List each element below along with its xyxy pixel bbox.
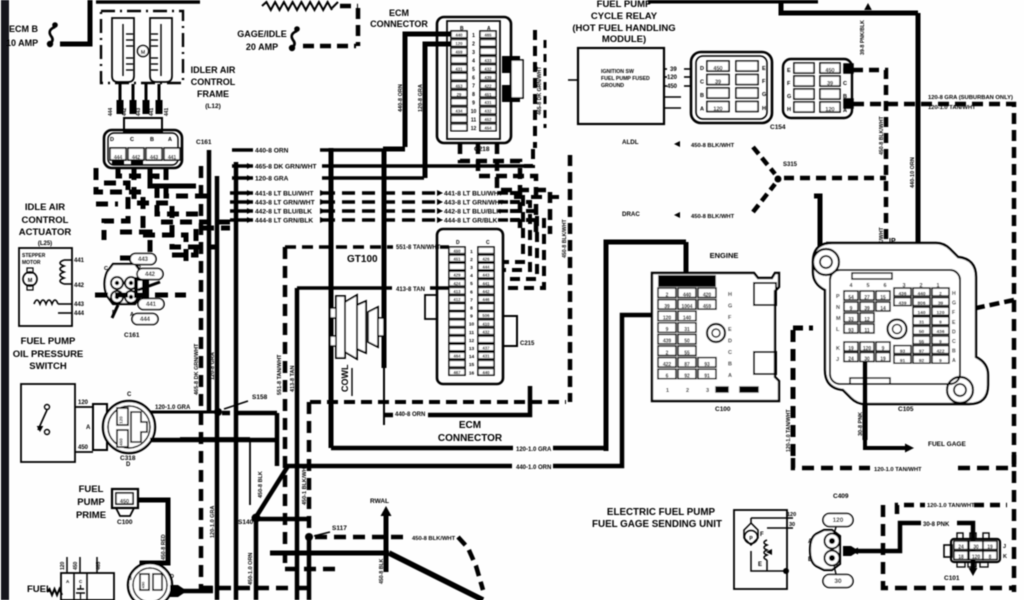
svg-text:1: 1 <box>666 388 669 394</box>
svg-text:120-8 GRA (SUBURBAN ONLY): 120-8 GRA (SUBURBAN ONLY) <box>928 95 1013 101</box>
svg-text:6: 6 <box>666 374 669 380</box>
svg-text:14: 14 <box>880 306 886 312</box>
svg-text:410: 410 <box>482 321 490 326</box>
C100 right tabs <box>754 283 776 305</box>
svg-text:450-8 BLK/WHT: 450-8 BLK/WHT <box>879 116 885 155</box>
svg-text:444: 444 <box>482 265 490 270</box>
svg-text:10: 10 <box>469 322 475 328</box>
svg-text:450: 450 <box>78 445 89 451</box>
dashed TAN WHT second <box>897 505 925 514</box>
svg-text:A: A <box>700 107 704 113</box>
svg-text:GROUND: GROUND <box>601 83 624 89</box>
svg-text:432: 432 <box>484 66 492 71</box>
svg-text:FUEL: FUEL <box>79 484 104 495</box>
right edge dashed vertical <box>1012 300 1017 592</box>
wire 440 ORN right vertical <box>916 13 921 293</box>
svg-text:440: 440 <box>917 291 925 297</box>
svg-text:120: 120 <box>787 512 796 518</box>
svg-text:465-8 DK GRN/WHT: 465-8 DK GRN/WHT <box>255 164 317 171</box>
svg-text:92: 92 <box>919 358 925 364</box>
svg-text:D: D <box>456 240 460 246</box>
svg-text:A: A <box>808 539 813 545</box>
svg-text:434: 434 <box>455 109 463 114</box>
svg-text:440-8 ORN: 440-8 ORN <box>395 412 425 418</box>
svg-text:9: 9 <box>666 327 669 333</box>
svg-text:11: 11 <box>469 330 474 336</box>
C161b stub wires <box>138 282 160 290</box>
svg-text:443-8 LT GRN/WHT: 443-8 LT GRN/WHT <box>444 200 504 207</box>
svg-text:CONNECTOR: CONNECTOR <box>438 433 503 444</box>
svg-text:2: 2 <box>470 257 473 263</box>
svg-text:55: 55 <box>684 350 690 356</box>
svg-text:443: 443 <box>136 108 142 117</box>
svg-text:CONTROL: CONTROL <box>191 77 236 87</box>
svg-text:19: 19 <box>987 544 993 550</box>
svg-text:443: 443 <box>74 302 85 308</box>
svg-text:9: 9 <box>939 339 942 345</box>
svg-text:E: E <box>762 66 766 72</box>
svg-text:429: 429 <box>453 273 461 278</box>
connector C161 actuator side <box>105 264 144 304</box>
wire 440 ORN bottom run <box>287 464 512 469</box>
svg-text:C100: C100 <box>715 406 731 413</box>
svg-text:29: 29 <box>457 92 462 97</box>
wire stubs into labels <box>232 148 253 152</box>
svg-text:91: 91 <box>900 358 906 364</box>
svg-text:436: 436 <box>898 291 906 297</box>
svg-text:551-8 TAN/WHT: 551-8 TAN/WHT <box>396 245 441 251</box>
svg-text:CONTROL: CONTROL <box>22 215 69 226</box>
svg-text:9: 9 <box>470 314 473 320</box>
C170 wire right <box>170 589 213 594</box>
dashed wire from gage fuse <box>303 44 356 49</box>
svg-text:450-1 BLK/WHT: 450-1 BLK/WHT <box>302 463 308 505</box>
ECM connector C218 body <box>437 17 511 143</box>
svg-text:440-8 ORN: 440-8 ORN <box>255 148 289 155</box>
wire 551 dashed vertical <box>283 247 288 569</box>
svg-text:442: 442 <box>482 289 490 294</box>
svg-text:806: 806 <box>917 300 925 306</box>
svg-text:2: 2 <box>666 292 669 298</box>
svg-text:120-1.0 TAN/WHT: 120-1.0 TAN/WHT <box>786 409 792 452</box>
svg-text:C161: C161 <box>196 139 212 146</box>
svg-text:30-8 PNK: 30-8 PNK <box>858 412 864 436</box>
svg-text:467: 467 <box>453 370 461 375</box>
svg-text:31: 31 <box>919 320 925 326</box>
svg-text:18: 18 <box>958 554 964 560</box>
svg-text:10: 10 <box>471 109 477 115</box>
svg-text:506: 506 <box>482 313 490 318</box>
svg-text:442: 442 <box>122 108 128 117</box>
svg-text:16: 16 <box>469 370 475 376</box>
svg-text:H: H <box>952 291 956 297</box>
svg-text:OIL PRESSURE: OIL PRESSURE <box>13 349 84 360</box>
svg-text:FRAME: FRAME <box>197 89 229 99</box>
svg-text:B: B <box>150 137 154 143</box>
svg-text:39: 39 <box>715 79 721 85</box>
svg-text:G: G <box>762 92 766 98</box>
svg-text:433: 433 <box>484 58 492 63</box>
svg-text:140: 140 <box>917 310 925 316</box>
junction S158 <box>214 408 222 416</box>
svg-text:IDLE AIR: IDLE AIR <box>25 202 65 213</box>
svg-text:444-8 LT GRN/BLK: 444-8 LT GRN/BLK <box>255 218 313 225</box>
svg-text:GAGE/IDLE: GAGE/IDLE <box>237 29 287 39</box>
svg-text:5: 5 <box>472 67 475 73</box>
svg-text:D: D <box>700 66 704 72</box>
svg-text:443: 443 <box>482 273 490 278</box>
C409 output arrow <box>843 546 859 556</box>
svg-text:55: 55 <box>919 339 925 345</box>
svg-text:(L12): (L12) <box>205 103 221 110</box>
svg-text:459: 459 <box>455 50 463 55</box>
svg-text:31: 31 <box>684 327 690 333</box>
svg-text:92: 92 <box>684 374 690 380</box>
svg-text:4: 4 <box>472 58 475 64</box>
relay box <box>578 48 664 124</box>
svg-text:C: C <box>486 240 490 246</box>
svg-text:413-8 TAN: 413-8 TAN <box>396 287 425 293</box>
svg-text:M: M <box>28 278 33 284</box>
sender resistor <box>764 540 767 560</box>
switch wires <box>75 406 93 408</box>
svg-text:439: 439 <box>484 75 492 80</box>
svg-text:1: 1 <box>472 33 475 39</box>
dashed wire below C215 <box>310 400 566 404</box>
svg-text:ENGINE: ENGINE <box>710 251 739 260</box>
svg-text:(HOT FUEL HANDLING: (HOT FUEL HANDLING <box>572 23 675 34</box>
junction S140 <box>256 466 288 517</box>
switch box <box>21 384 75 462</box>
svg-text:FUEL PUMP FUSED: FUEL PUMP FUSED <box>601 76 650 82</box>
svg-text:422: 422 <box>484 83 492 88</box>
svg-text:432: 432 <box>482 329 490 334</box>
svg-text:54: 54 <box>848 295 854 301</box>
dashed corner bottom <box>883 505 1014 588</box>
wire from ECM B fuse <box>60 0 90 44</box>
svg-text:M: M <box>141 50 146 56</box>
svg-text:440-10 ORN: 440-10 ORN <box>910 157 916 188</box>
coil marks left channel <box>126 33 133 35</box>
dashed into IP <box>954 300 1014 311</box>
svg-text:120: 120 <box>972 554 981 560</box>
svg-text:J: J <box>836 357 839 363</box>
C105 mounting ears <box>813 249 839 275</box>
svg-text:450-8 BLK: 450-8 BLK <box>379 558 385 584</box>
svg-text:120: 120 <box>863 346 872 352</box>
relay wires <box>664 68 667 70</box>
svg-text:A: A <box>86 425 91 431</box>
svg-text:E: E <box>787 68 791 74</box>
svg-text:C409: C409 <box>833 493 849 500</box>
connector C101 <box>951 539 1000 562</box>
svg-text:431: 431 <box>484 100 492 105</box>
svg-text:C: C <box>728 350 732 356</box>
svg-text:450: 450 <box>667 84 678 90</box>
svg-text:413: 413 <box>453 289 461 294</box>
wire 120 GRA to S158 <box>150 411 216 414</box>
svg-text:444: 444 <box>140 317 151 323</box>
svg-text:6: 6 <box>470 289 473 295</box>
svg-text:12: 12 <box>471 126 477 132</box>
svg-text:B: B <box>808 557 813 563</box>
mesh stair wires <box>104 183 128 240</box>
svg-text:S140: S140 <box>238 519 254 526</box>
svg-text:K: K <box>1003 554 1007 560</box>
svg-text:30: 30 <box>973 544 979 550</box>
oval wire tags <box>130 254 156 265</box>
svg-text:COWL: COWL <box>340 364 350 392</box>
svg-text:FUEL PUMP: FUEL PUMP <box>597 0 652 10</box>
svg-text:440: 440 <box>482 370 490 375</box>
svg-text:120: 120 <box>60 561 66 570</box>
svg-text:2: 2 <box>939 291 942 297</box>
svg-text:441: 441 <box>146 302 157 308</box>
svg-text:450: 450 <box>120 499 129 505</box>
svg-text:24: 24 <box>958 544 964 550</box>
wire C318 to bus <box>150 438 277 443</box>
svg-text:E: E <box>728 327 732 333</box>
svg-text:H: H <box>787 107 791 113</box>
capacitor symbol <box>77 588 84 590</box>
svg-text:39: 39 <box>664 304 670 310</box>
wire S140 feeder <box>249 438 251 505</box>
svg-text:7: 7 <box>472 84 475 90</box>
svg-text:A: A <box>952 358 956 364</box>
svg-text:11: 11 <box>471 118 477 124</box>
svg-text:465-8 DK GRN/WHT: 465-8 DK GRN/WHT <box>194 343 200 395</box>
svg-text:FUEL GAGE: FUEL GAGE <box>928 441 966 448</box>
svg-text:444-8 LT GR/BLK: 444-8 LT GR/BLK <box>444 218 498 225</box>
connector C154 <box>691 52 772 123</box>
RWAL arrow <box>384 516 389 572</box>
svg-text:39: 39 <box>827 81 833 87</box>
svg-text:C101: C101 <box>944 575 960 582</box>
svg-text:426: 426 <box>482 257 490 262</box>
svg-text:441-8 LT BLU/WHT: 441-8 LT BLU/WHT <box>444 191 503 198</box>
svg-text:431: 431 <box>482 354 490 359</box>
svg-text:39: 39 <box>670 67 677 73</box>
svg-text:443: 443 <box>138 257 149 263</box>
svg-text:20 AMP: 20 AMP <box>246 42 278 52</box>
svg-text:39: 39 <box>864 306 870 312</box>
C215 wing tabs <box>503 316 517 346</box>
svg-text:GT100: GT100 <box>347 254 378 265</box>
svg-text:12: 12 <box>864 317 870 323</box>
svg-text:450-8 BLK/WHT: 450-8 BLK/WHT <box>691 143 735 149</box>
wire 440 ORN bottom <box>384 413 393 418</box>
C105 left grid <box>844 291 858 300</box>
svg-text:444: 444 <box>74 311 85 317</box>
sender wires <box>751 517 793 519</box>
junction S117 <box>305 533 313 541</box>
svg-text:120: 120 <box>825 107 834 113</box>
label row arrowheads <box>247 190 253 196</box>
svg-text:30: 30 <box>834 578 842 585</box>
svg-text:D: D <box>110 137 114 143</box>
svg-text:120-1.0 TAN/WHT: 120-1.0 TAN/WHT <box>874 467 922 473</box>
svg-text:C: C <box>700 80 704 86</box>
svg-text:432: 432 <box>484 109 492 114</box>
connector C100 body <box>652 273 779 401</box>
svg-text:120-1.0 TAN/WHT: 120-1.0 TAN/WHT <box>927 503 975 509</box>
svg-text:ECM: ECM <box>389 8 409 18</box>
svg-text:441: 441 <box>74 258 85 264</box>
svg-text:450: 450 <box>825 68 834 74</box>
svg-text:8: 8 <box>472 92 475 98</box>
svg-text:J: J <box>1003 544 1006 550</box>
svg-text:431: 431 <box>455 66 463 71</box>
svg-text:451: 451 <box>453 257 461 262</box>
svg-text:120: 120 <box>78 400 89 406</box>
svg-text:S315: S315 <box>783 162 798 168</box>
svg-text:439: 439 <box>898 300 906 306</box>
svg-text:442: 442 <box>145 272 156 278</box>
svg-text:C318: C318 <box>120 455 136 462</box>
svg-text:A: A <box>168 137 172 143</box>
svg-text:G: G <box>728 304 732 310</box>
svg-text:50: 50 <box>684 339 690 345</box>
C100 pin grid <box>658 288 676 298</box>
svg-text:441: 441 <box>149 108 155 117</box>
svg-text:450-1.0 ORN: 450-1.0 ORN <box>248 553 254 585</box>
svg-text:24: 24 <box>848 356 854 362</box>
connector C161 <box>104 130 182 168</box>
svg-text:9: 9 <box>939 358 942 364</box>
svg-text:450: 450 <box>453 248 461 253</box>
wire 120 GRA bottom run <box>606 242 686 451</box>
wire 440 ORN to ECM <box>405 34 456 147</box>
svg-text:STEPPER: STEPPER <box>22 253 46 259</box>
dashed TAN WHT horizontal <box>793 458 870 468</box>
wire S158 branch <box>222 411 240 416</box>
svg-text:E: E <box>758 562 762 568</box>
svg-text:454: 454 <box>484 126 492 131</box>
svg-text:MODULE): MODULE) <box>602 34 646 45</box>
svg-text:IGNITION SW: IGNITION SW <box>601 69 634 75</box>
wire 413 vertical <box>295 288 300 600</box>
top-left crop line <box>96 0 200 4</box>
svg-text:87: 87 <box>684 362 690 368</box>
svg-text:D: D <box>126 462 131 468</box>
svg-text:13: 13 <box>469 346 475 352</box>
svg-text:450-8 BLK/WHT: 450-8 BLK/WHT <box>562 219 568 258</box>
svg-text:440-8 ORN: 440-8 ORN <box>398 84 404 112</box>
wire to IP ground ear <box>814 196 820 252</box>
svg-text:440: 440 <box>683 292 692 298</box>
svg-text:11: 11 <box>864 328 870 334</box>
svg-text:452: 452 <box>484 117 492 122</box>
svg-text:441: 441 <box>482 281 490 286</box>
svg-text:120: 120 <box>713 106 722 112</box>
svg-text:8: 8 <box>989 554 992 560</box>
svg-text:F: F <box>952 310 955 316</box>
svg-text:120-1.0 GRA: 120-1.0 GRA <box>155 405 191 411</box>
svg-text:30: 30 <box>864 356 870 362</box>
C215 pin grid <box>449 247 465 254</box>
svg-text:IDLER AIR: IDLER AIR <box>191 65 236 75</box>
svg-text:4: 4 <box>470 273 473 279</box>
svg-text:39: 39 <box>938 300 944 306</box>
svg-text:120: 120 <box>833 517 844 524</box>
bus GT100 left <box>329 148 334 448</box>
dashed 450 BLK WHT to right <box>315 535 408 540</box>
svg-text:RWAL: RWAL <box>370 498 389 505</box>
svg-text:S158: S158 <box>252 394 268 401</box>
svg-text:C161: C161 <box>124 332 140 339</box>
svg-text:93: 93 <box>848 328 854 334</box>
svg-text:450-8 BLK/WHT: 450-8 BLK/WHT <box>412 536 456 542</box>
svg-text:413-8 TAN: 413-8 TAN <box>290 365 296 392</box>
svg-text:P: P <box>836 294 840 300</box>
svg-text:PUMP: PUMP <box>77 497 105 508</box>
actuator coil 441-442 <box>60 260 64 284</box>
bottom dashed stub <box>200 586 310 591</box>
svg-text:120: 120 <box>119 416 124 424</box>
wire 120 GRA vertical <box>215 176 220 600</box>
svg-text:30-8 PNK: 30-8 PNK <box>923 522 950 528</box>
svg-text:120: 120 <box>936 310 944 316</box>
connector C105 body <box>813 243 988 404</box>
svg-text:H: H <box>762 106 766 112</box>
switch symbol <box>45 405 50 410</box>
svg-text:453: 453 <box>455 83 463 88</box>
svg-text:91: 91 <box>704 374 710 380</box>
prime connector C100b <box>112 489 138 508</box>
svg-text:451: 451 <box>484 92 492 97</box>
svg-text:2: 2 <box>686 388 689 394</box>
C100 bolt circle <box>707 324 725 342</box>
svg-text:2: 2 <box>472 41 475 47</box>
svg-text:ELECTRIC FUEL PUMP: ELECTRIC FUEL PUMP <box>607 507 716 518</box>
svg-text:PRIME: PRIME <box>76 510 106 521</box>
wire 465 dashed vertical <box>199 166 204 590</box>
svg-text:440: 440 <box>455 33 463 38</box>
svg-text:120: 120 <box>667 75 678 81</box>
wire 30 PNK bottom <box>851 548 858 555</box>
wire mesh from C161 <box>96 168 186 262</box>
svg-text:93: 93 <box>900 348 906 354</box>
svg-text:C215: C215 <box>520 341 535 347</box>
svg-text:464: 464 <box>453 354 461 359</box>
svg-text:19: 19 <box>848 346 854 352</box>
svg-text:442-8 LT BLU/BLK: 442-8 LT BLU/BLK <box>255 209 312 216</box>
svg-text:3: 3 <box>472 50 475 56</box>
svg-text:F: F <box>760 532 764 538</box>
svg-text:G: G <box>952 301 956 307</box>
stepper motor symbol <box>23 272 37 286</box>
C218 side tabs <box>503 57 519 72</box>
svg-text:ECM B: ECM B <box>9 24 39 34</box>
svg-text:436: 436 <box>936 329 944 335</box>
svg-text:N: N <box>836 305 840 311</box>
svg-text:551-8 TAN/WHT: 551-8 TAN/WHT <box>277 354 283 395</box>
svg-text:120-1.0 TAN/WHT: 120-1.0 TAN/WHT <box>928 105 976 111</box>
svg-text:D: D <box>170 574 174 580</box>
svg-text:C154: C154 <box>770 124 786 131</box>
motor M circle <box>138 46 149 57</box>
svg-text:39-8 PNK/BLK: 39-8 PNK/BLK <box>860 20 866 55</box>
svg-text:422: 422 <box>663 362 672 368</box>
wire S140 to S117 <box>258 517 309 522</box>
svg-text:B: B <box>728 362 732 368</box>
svg-text:441-8 LT BLU/WHT: 441-8 LT BLU/WHT <box>255 191 314 198</box>
svg-text:422: 422 <box>936 348 944 354</box>
mesh below C218 <box>460 143 520 228</box>
pump symbol <box>744 523 758 545</box>
ECM connector C215 body <box>437 229 503 384</box>
svg-text:C105: C105 <box>898 406 914 413</box>
